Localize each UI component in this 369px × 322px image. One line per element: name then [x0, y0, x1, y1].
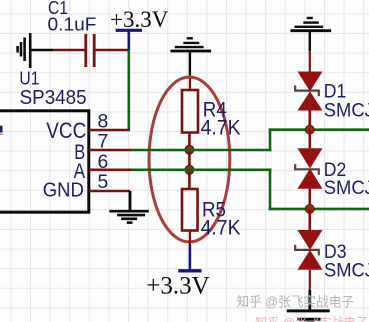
diode D3 (bidirectional TVS): [295, 230, 322, 270]
resistor R5: [182, 189, 198, 231]
power +3.3V (bottom): [178, 245, 201, 271]
wire pin5 down: [129, 191, 132, 210]
wire D1 to node: [308, 111, 311, 130]
pin 6 stub: [89, 169, 131, 172]
pin 5 stub: [89, 190, 130, 193]
svg-text:0.1uF: 0.1uF: [48, 14, 97, 34]
wire node to node: [188, 150, 191, 170]
left edge cut-off text mark: [0, 126, 3, 133]
wire B (green): [131, 149, 271, 152]
wire B riser (green): [269, 130, 272, 152]
svg-text:SMCJ: SMCJ: [324, 259, 369, 281]
svg-text:知乎 @张飞实战电子: 知乎 @张飞实战电子: [237, 294, 355, 310]
svg-text:4.7K: 4.7K: [201, 216, 241, 239]
junction node A/R5: [185, 165, 194, 174]
svg-text:VCC: VCC: [46, 118, 86, 143]
wire A (green): [131, 169, 271, 172]
svg-text:+3.3V: +3.3V: [146, 273, 209, 300]
pin 7 stub: [89, 149, 131, 152]
svg-text:U1: U1: [19, 69, 39, 89]
junction node B/R4: [185, 145, 194, 154]
left edge cut-off wire: [0, 133, 3, 135]
IC U1 box: [0, 111, 89, 212]
wire D2 to node: [308, 189, 311, 209]
wire ground to R4: [189, 75, 191, 90]
ground (earth, left, rotated pointing left): [18, 33, 53, 68]
diode D2 (bidirectional TVS): [295, 148, 322, 188]
svg-text:SMCJ: SMCJ: [324, 99, 369, 121]
wire ground to D1: [309, 51, 311, 71]
highlight ellipse: [149, 77, 230, 242]
wire (green) +3.3V junction down to pin 8: [128, 50, 131, 130]
wire A dropper (green): [269, 168, 272, 209]
wire bottom to D2/D3 node (green): [269, 208, 369, 211]
ground (earth, below pin 5): [109, 211, 148, 222]
junction node D1/D2: [305, 125, 314, 134]
svg-text:+3.3V: +3.3V: [110, 7, 169, 32]
ground (earth, top middle, pointing up): [170, 38, 211, 75]
ground (earth, bottom right): [287, 311, 330, 322]
resistor R4: [182, 90, 198, 133]
wire D3 down: [309, 270, 311, 290]
capacitor C1: [86, 34, 94, 67]
wire node to D3: [308, 209, 311, 230]
wire ground to C1: [53, 49, 85, 52]
junction node D2/D3: [305, 205, 314, 214]
wire node to D2: [308, 130, 311, 149]
wire C1 to +3.3V junction: [96, 49, 131, 52]
svg-text:4.7K: 4.7K: [201, 117, 241, 140]
wire top to D1/D2 node (green): [269, 128, 369, 131]
diode D1 (bidirectional TVS): [295, 72, 322, 111]
svg-text:SMCJ: SMCJ: [324, 177, 369, 199]
wire R5 to +3.3V: [189, 231, 191, 246]
wire R4 to node: [188, 133, 191, 151]
power +3.3V (top): [116, 30, 142, 50]
svg-text:知乎 @张飞实战电子: 知乎 @张飞实战电子: [255, 316, 368, 322]
ground (earth, top right, pointing up): [290, 18, 331, 51]
svg-text:SP3485: SP3485: [20, 87, 87, 109]
svg-text:GND: GND: [43, 179, 84, 201]
wire to bottom ground: [308, 290, 311, 310]
wire node to R5: [188, 170, 191, 189]
pin 8 stub: [89, 129, 130, 132]
